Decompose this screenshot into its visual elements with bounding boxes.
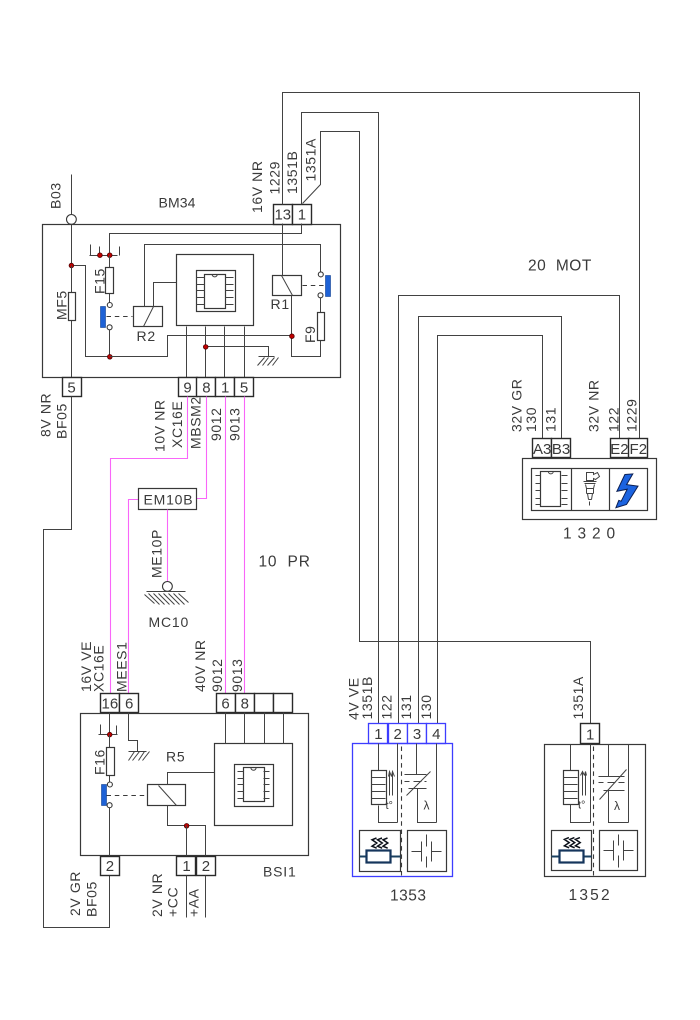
- node B03 terminal circle: [67, 215, 77, 225]
- switch contact bottom right: [318, 293, 323, 298]
- ground BM34: [258, 357, 279, 366]
- svg-text:1: 1: [221, 379, 229, 396]
- splice bar BSI1: [99, 734, 118, 736]
- label +CC: [165, 887, 181, 917]
- svg-text:MF5: MF5: [54, 290, 70, 320]
- label 1352: [569, 887, 612, 904]
- junction dot MF5 top: [69, 263, 74, 268]
- capacitor element blue right: [326, 276, 331, 297]
- svg-text:13: 13: [274, 206, 291, 223]
- label XC16E (BSI1): [91, 645, 107, 692]
- svg-text:16V NR: 16V NR: [249, 160, 265, 213]
- svg-text:F9: F9: [302, 325, 318, 343]
- svg-text:λ: λ: [424, 799, 430, 813]
- unit 1352 box: [545, 745, 646, 877]
- wire R5 output: [168, 806, 206, 857]
- connector 1352 pin 1: [581, 724, 600, 744]
- label 9012 (BM34): [208, 407, 224, 441]
- wire pin13 to R1: [282, 224, 284, 276]
- wire BSI blank3 to IC: [264, 713, 266, 744]
- svg-text:1352: 1352: [569, 887, 612, 904]
- svg-text:10 PR: 10 PR: [259, 554, 311, 571]
- ground BSI1: [129, 752, 150, 761]
- module BM34 box: [43, 225, 341, 378]
- connector BM34 bottom pin 5: [63, 378, 82, 397]
- label 32V GR: [509, 379, 525, 432]
- label 130 (1320): [523, 407, 539, 432]
- label 9013 (BSI1): [229, 658, 245, 692]
- junction dot splice B: [107, 253, 112, 258]
- label 2V NR: [149, 873, 165, 917]
- dashed link to R5: [107, 795, 148, 797]
- junction dot bottom left: [108, 355, 113, 360]
- connector BSI1 top pins 16 6: [101, 694, 139, 713]
- splice EM10B box: [139, 489, 197, 510]
- wire 122 (E2 to 1353 pin 2): [399, 296, 620, 724]
- wire switch to pin 2: [109, 808, 111, 857]
- resistor box 1353: [360, 831, 401, 872]
- label BF05 top: [54, 403, 70, 439]
- connector BSI1 bottom pins 1 2: [177, 857, 216, 876]
- svg-text:+AA: +AA: [186, 888, 202, 917]
- label 9012 (BSI1): [209, 658, 225, 692]
- battery icon 1353: [408, 831, 447, 872]
- label 10 PR: [259, 554, 311, 571]
- label MBSM2: [188, 396, 204, 449]
- label lambda 1352: [614, 799, 620, 813]
- label 10V NR: [152, 399, 168, 452]
- svg-text:E2: E2: [610, 441, 628, 458]
- label BF05 bottom: [84, 881, 100, 917]
- node B03 label: [48, 182, 64, 209]
- dashed link to R2: [107, 316, 133, 318]
- svg-text:BF05: BF05: [54, 403, 70, 439]
- svg-text:20 MOT: 20 MOT: [528, 258, 592, 275]
- label 122 (1353): [379, 694, 395, 719]
- label MF5: [54, 290, 70, 320]
- wire IC pin 8: [205, 327, 207, 378]
- label R5: [166, 749, 186, 765]
- switch contact bottom left: [107, 325, 112, 330]
- svg-text:8V NR: 8V NR: [38, 393, 54, 437]
- relay R5: [148, 785, 186, 806]
- heater element 1352: [564, 745, 591, 823]
- label BSI1: [263, 864, 297, 880]
- switch contact bottom BSI1: [107, 803, 112, 808]
- svg-text:131: 131: [543, 407, 559, 432]
- switch contact top BSI1: [107, 782, 112, 787]
- label XC16E (BM34): [169, 401, 185, 448]
- svg-text:40V NR: 40V NR: [192, 639, 208, 692]
- lightning bolt icon 1320: [616, 474, 638, 508]
- svg-text:BF05: BF05: [84, 881, 100, 917]
- label 1229 (top): [267, 161, 283, 195]
- wire 130 (A3 to 1353 pin 4): [438, 336, 543, 724]
- svg-text:MC10: MC10: [149, 614, 190, 630]
- ground MC10 terminal circle: [163, 582, 173, 592]
- svg-text:131: 131: [398, 694, 414, 719]
- battery icon 1352: [600, 831, 638, 871]
- wire MF5 branch: [72, 225, 108, 357]
- wire IC pin 9: [186, 327, 188, 378]
- IC frame BM34: [197, 271, 236, 312]
- fuse MF5: [69, 266, 76, 378]
- svg-text:8: 8: [202, 379, 210, 396]
- label 1320: [563, 526, 621, 543]
- IC chip 1320: [536, 471, 568, 506]
- svg-text:F15: F15: [92, 268, 108, 294]
- label 4V VE: [345, 677, 361, 720]
- connector 1320 pins A3 B3: [533, 439, 571, 458]
- heater arrows t 1353: [386, 772, 395, 813]
- svg-text:R2: R2: [137, 328, 157, 344]
- svg-text:3: 3: [413, 726, 421, 743]
- svg-text:1351B: 1351B: [359, 676, 375, 719]
- module BSI1 box: [81, 714, 309, 856]
- svg-text:t°: t°: [386, 800, 393, 812]
- label 122 (1320): [606, 407, 622, 432]
- divider dashed 1353: [401, 747, 403, 877]
- wire BSI conn 8 to IC: [244, 713, 246, 744]
- svg-text:R1: R1: [271, 296, 291, 312]
- svg-text:9013: 9013: [229, 658, 245, 692]
- svg-text:A3: A3: [533, 441, 551, 458]
- label 40V NR: [192, 639, 208, 692]
- label 131 (1353): [398, 694, 414, 719]
- splice stub: [99, 247, 101, 256]
- wire 9012 pink: [225, 397, 227, 694]
- label 131 (1320): [543, 407, 559, 432]
- wire bottom common rail: [110, 336, 292, 357]
- svg-text:B03: B03: [48, 182, 64, 209]
- splice bracket right: [119, 247, 121, 256]
- connector BSI1 top pins 6 8 and blanks: [217, 694, 293, 713]
- wire +AA stub: [205, 876, 207, 918]
- wire pin6 to ground: [129, 713, 138, 752]
- wire switch to bottom rail: [109, 330, 111, 357]
- svg-text:4: 4: [432, 726, 440, 743]
- IC box BSI1: [215, 744, 293, 826]
- label R2: [137, 328, 157, 344]
- wire MEES1 pink from EM10B: [129, 500, 139, 694]
- label 32V NR: [586, 379, 602, 432]
- ground MC10: [145, 592, 189, 605]
- label lambda 1353: [424, 799, 430, 813]
- svg-text:F2: F2: [630, 441, 648, 458]
- label 9013 (BM34): [227, 407, 243, 441]
- splice bar BM34: [90, 255, 118, 257]
- divider dashed 1352: [593, 747, 595, 876]
- svg-text:XC16E: XC16E: [91, 645, 107, 692]
- splice bracket right BSI1: [116, 726, 118, 735]
- fuse F15: [106, 256, 114, 303]
- label R1: [271, 296, 291, 312]
- connector 1320 pins E2 F2: [610, 439, 647, 458]
- label 16V VE: [78, 641, 94, 692]
- label F15: [92, 268, 108, 294]
- svg-text:F16: F16: [92, 749, 108, 775]
- svg-text:1229: 1229: [624, 398, 640, 432]
- wire BSI conn 6 to IC: [225, 713, 227, 744]
- svg-text:EM10B: EM10B: [144, 492, 194, 508]
- thermistor 1353: [405, 744, 437, 823]
- connector BM34 bottom pins 9 8 1 5: [179, 378, 254, 397]
- svg-text:130: 130: [418, 694, 434, 719]
- wire IC pin 1: [224, 327, 226, 378]
- svg-text:1351A: 1351A: [570, 676, 586, 720]
- junction dot R5 output: [184, 824, 189, 829]
- svg-text:ME10P: ME10P: [149, 529, 165, 578]
- connector BSI1 bottom pin 2: [101, 857, 120, 876]
- svg-text:2V GR: 2V GR: [67, 871, 83, 916]
- svg-text:6: 6: [125, 695, 133, 712]
- svg-text:2: 2: [394, 726, 402, 743]
- IC box BM34: [177, 255, 254, 326]
- svg-text:XC16E: XC16E: [169, 401, 185, 448]
- svg-text:BSI1: BSI1: [263, 864, 297, 880]
- relay R1: [273, 276, 302, 296]
- wire pin1 internal feed rail: [110, 224, 302, 253]
- label 1351A (1352): [570, 676, 586, 720]
- wire MBSM2 pink to EM10B: [196, 397, 207, 499]
- svg-text:9012: 9012: [208, 407, 224, 441]
- wire R1 to F9 bottom: [292, 296, 321, 357]
- IC chip BM34: [197, 274, 234, 308]
- IC chip BSI1: [238, 768, 270, 802]
- svg-text:16: 16: [102, 695, 119, 712]
- label 16V NR: [249, 160, 265, 213]
- svg-text:5: 5: [67, 379, 75, 396]
- thermistor 1352: [599, 745, 629, 823]
- svg-text:1351B: 1351B: [284, 151, 300, 194]
- divider 1320 cell 2-3: [609, 469, 611, 511]
- wire junction to pin 1: [186, 826, 188, 857]
- heater element 1353: [372, 744, 398, 823]
- label F16: [92, 749, 108, 775]
- svg-text:1: 1: [374, 726, 382, 743]
- label MC10: [149, 614, 190, 630]
- wire ground branch BM34: [206, 347, 269, 357]
- svg-text:MEES1: MEES1: [114, 642, 130, 692]
- svg-text:6: 6: [221, 695, 229, 712]
- unit 1353 box: [353, 744, 453, 877]
- wire IC pin 5: [244, 327, 246, 378]
- connector BM34 top, pins 13 and 1: [274, 205, 312, 225]
- heater arrows t 1352: [578, 772, 587, 812]
- wire 131 (B3 to 1353 pin 3): [419, 317, 562, 724]
- svg-text:B3: B3: [552, 441, 570, 458]
- fuse F9: [318, 298, 325, 357]
- wire +CC stub: [186, 876, 188, 918]
- svg-text:MBSM2: MBSM2: [188, 396, 204, 449]
- svg-text:2V NR: 2V NR: [149, 873, 165, 917]
- svg-text:2: 2: [106, 858, 114, 875]
- svg-text:BM34: BM34: [159, 195, 196, 211]
- svg-text:122: 122: [606, 407, 622, 432]
- wire XC16E pink: [111, 397, 188, 694]
- connector 1353 pins 1 2 3 4: [369, 724, 446, 744]
- svg-text:9012: 9012: [209, 658, 225, 692]
- label 1351A (top): [303, 138, 319, 182]
- label 8V NR: [38, 393, 54, 437]
- wire 1353 pin 2 internal: [397, 744, 399, 823]
- splice bracket left: [90, 245, 92, 256]
- wire pin16 drop: [109, 713, 111, 733]
- wire R2 coil feed rail: [145, 245, 321, 307]
- svg-text:1: 1: [298, 206, 306, 223]
- module 1320 outer box: [523, 459, 657, 520]
- module BM34 label: [159, 195, 196, 211]
- svg-text:1: 1: [586, 726, 594, 743]
- label MEES1: [114, 642, 130, 692]
- svg-text:32V NR: 32V NR: [586, 379, 602, 432]
- wire R5 coil to IC: [168, 773, 215, 785]
- wire BF05 left rail: [44, 397, 110, 928]
- svg-text:1351A: 1351A: [303, 138, 319, 182]
- wire 1352 pin 1 internal: [590, 745, 592, 823]
- capacitor element blue BSI1: [102, 785, 107, 806]
- label 2V GR: [67, 871, 83, 916]
- label +AA: [186, 888, 202, 917]
- svg-text:R5: R5: [166, 749, 186, 765]
- label ME10P: [149, 529, 165, 578]
- svg-text:130: 130: [523, 407, 539, 432]
- label 130 (1353): [418, 694, 434, 719]
- junction dot ground branch: [203, 345, 208, 350]
- switch contact top right: [318, 272, 323, 277]
- label 20 MOT: [528, 258, 592, 275]
- svg-text:9013: 9013: [227, 407, 243, 441]
- junction dot splice A: [98, 253, 103, 258]
- splice bracket left BSI1: [100, 725, 102, 735]
- svg-text:1353: 1353: [390, 888, 426, 905]
- dashed link to R1: [303, 285, 325, 287]
- svg-text:8: 8: [241, 695, 249, 712]
- svg-text:1: 1: [182, 858, 190, 875]
- svg-text:+CC: +CC: [165, 887, 181, 917]
- junction dot R1 bottom: [290, 334, 295, 339]
- svg-text:122: 122: [379, 694, 395, 719]
- svg-text:λ: λ: [614, 799, 620, 813]
- label 1351B (top): [284, 151, 300, 194]
- fuse F16: [107, 735, 115, 783]
- wire 1229 (pin 13 to top rail to F2): [283, 93, 640, 439]
- wire BSI blank4 to IC: [283, 713, 285, 744]
- wire 1351B (pin 1 to 1353 pin 1): [302, 113, 379, 724]
- wire ME10P pink: [167, 510, 169, 582]
- svg-text:t°: t°: [578, 800, 585, 812]
- svg-text:1320: 1320: [563, 526, 621, 543]
- label F9: [302, 325, 318, 343]
- relay R2: [134, 307, 163, 327]
- wire 1351A (pin 1 diagonal to 1352 pin 1): [303, 132, 591, 724]
- injector icon 1320: [584, 473, 600, 506]
- svg-text:5: 5: [240, 379, 248, 396]
- svg-text:1229: 1229: [267, 161, 283, 195]
- svg-text:9: 9: [183, 379, 191, 396]
- label 1351B (1353): [359, 676, 375, 719]
- switch contact top left: [107, 303, 112, 308]
- label 1353: [390, 888, 426, 905]
- divider 1320 cell 1-2: [571, 469, 573, 511]
- wire 9013 pink: [244, 397, 246, 694]
- IC frame BSI1: [235, 765, 274, 807]
- svg-text:10V NR: 10V NR: [152, 399, 168, 452]
- resistor box 1352: [552, 831, 592, 871]
- junction dot splice BSI1: [107, 732, 112, 737]
- wire B03 drop: [71, 175, 73, 215]
- capacitor element blue left: [101, 307, 106, 328]
- svg-text:2: 2: [202, 858, 210, 875]
- label 1229 (1320): [624, 398, 640, 432]
- wire R2 to IC: [154, 283, 177, 307]
- module 1320 inner box: [532, 469, 648, 511]
